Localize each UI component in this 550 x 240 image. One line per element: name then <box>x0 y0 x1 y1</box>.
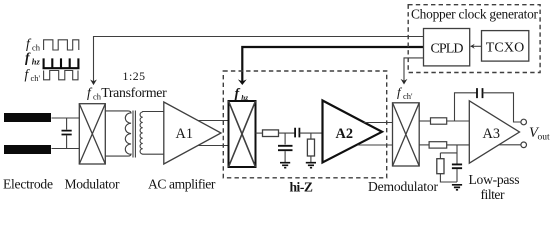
feedback wire up from top input <box>455 93 477 121</box>
arrowhead f_hz down (bold) <box>238 79 247 85</box>
svg-text:out: out <box>538 132 550 142</box>
resistor to ground (low-pass) <box>440 152 457 154</box>
capacitor across electrode wires <box>62 131 72 135</box>
label 1:25 <box>123 69 146 83</box>
label Demodulator <box>368 179 438 194</box>
chopper clock generator dashed box <box>408 5 540 73</box>
arrowhead f_ch down <box>90 80 97 86</box>
label f_ch Transformer <box>87 85 167 101</box>
wire chopper to R1 <box>256 132 263 134</box>
CPLD U-box <box>424 29 470 66</box>
svg-text:Chopper clock generator: Chopper clock generator <box>411 7 539 22</box>
TCXO box <box>482 31 529 61</box>
wire A1 to chopper (bottom tap) <box>198 145 228 147</box>
chopper crossed box (bold) <box>229 101 256 167</box>
svg-text:CPLD: CPLD <box>431 42 464 57</box>
electrode bottom bar <box>4 145 51 154</box>
wire f_hz clock line (thick) from CPLD to hi-Z arrow <box>238 47 424 85</box>
ground (hi-Z resistor) <box>306 163 316 168</box>
svg-text:A2: A2 <box>336 126 353 142</box>
waveform f_ch <box>44 40 79 50</box>
capacitor C series (hi-Z) <box>295 128 299 138</box>
svg-text:hi-Z: hi-Z <box>289 180 313 195</box>
signal label f_ch' <box>25 67 41 84</box>
transformer core <box>133 111 135 158</box>
wire demodulator to R bottom <box>419 144 429 146</box>
label f_hz at chopper <box>235 87 249 102</box>
wire modulator to transformer primary (bottom) <box>105 154 131 157</box>
signal label f_ch <box>26 36 41 53</box>
wire modulator to transformer primary (top) <box>105 111 131 114</box>
wire series cap to A2 <box>299 132 322 134</box>
signal label f_hz <box>25 50 41 67</box>
svg-text:1:25: 1:25 <box>123 69 146 83</box>
feedback wire right and down to output <box>483 93 521 122</box>
hi-Z dashed box <box>223 71 386 178</box>
label Electrode <box>3 177 53 192</box>
label hi-Z <box>289 180 313 195</box>
wire TCXO to CPLD with arrowhead <box>471 45 482 47</box>
capacitor to ground (hi-Z) <box>284 133 286 144</box>
svg-text:ch': ch' <box>31 73 41 83</box>
RC to ground junction (low-pass) <box>456 145 458 164</box>
waveform f_hz <box>43 58 80 68</box>
transformer primary coil <box>125 113 131 155</box>
svg-text:ch': ch' <box>403 91 413 101</box>
modulator crossed box <box>79 104 105 164</box>
output terminal circle upper <box>521 119 527 125</box>
op-amp A3 <box>469 101 519 163</box>
wire stub to lower output terminal <box>499 144 520 146</box>
wire electrode bottom to modulator <box>52 148 80 150</box>
svg-text:AC amplifier: AC amplifier <box>148 177 216 192</box>
wire electrode top to modulator <box>52 117 80 119</box>
electrode top bar <box>4 113 51 122</box>
svg-text:ch: ch <box>32 43 41 53</box>
wire R bottom to A3 <box>447 144 470 146</box>
label Low-pass filter <box>469 172 520 202</box>
wire f_ch clock line (thin) from CPLD to transformer arrow <box>94 37 424 82</box>
op-amp A2 (bold) <box>323 101 383 163</box>
label Modulator <box>65 177 120 192</box>
svg-text:Low-pass: Low-pass <box>469 172 520 187</box>
wire R top to A3 <box>447 120 470 122</box>
svg-text:Electrode: Electrode <box>3 177 53 192</box>
demodulator crossed box <box>393 103 420 166</box>
svg-text:Transformer: Transformer <box>101 85 167 100</box>
wire A2 to demodulator (bottom tap) <box>358 144 393 146</box>
wire demodulator to R top <box>419 120 430 122</box>
ground (low-pass) <box>452 185 462 190</box>
label chopper clock generator <box>411 7 539 22</box>
svg-text:A1: A1 <box>176 126 193 142</box>
wire A2 to demodulator (top tap) <box>364 122 393 124</box>
feedback capacitor <box>477 88 483 98</box>
svg-text:Demodulator: Demodulator <box>368 179 438 194</box>
resistor to ground (hi-Z) <box>310 133 312 139</box>
op-amp A1 <box>164 102 221 164</box>
svg-text:hz: hz <box>32 57 41 67</box>
waveform f_ch' <box>44 71 78 80</box>
label f_ch' at demodulator <box>397 85 413 102</box>
svg-text:A3: A3 <box>483 126 500 142</box>
wire f_ch' clock line from CPLD left edge down to demodulator <box>404 58 424 81</box>
wire R to series cap <box>279 132 295 134</box>
transformer secondary coil <box>140 112 143 154</box>
capacitor to ground (low-pass) <box>452 164 462 168</box>
resistor R top (low-pass) <box>431 118 447 124</box>
svg-text:Modulator: Modulator <box>65 177 120 192</box>
wire secondary to A1 (top) <box>143 111 164 114</box>
wire secondary to A1 (bottom) <box>143 153 164 155</box>
svg-text:filter: filter <box>481 187 505 202</box>
resistor R bottom (low-pass) <box>429 142 447 148</box>
output terminal circle lower <box>521 142 527 148</box>
label AC amplifier <box>148 177 216 192</box>
wire A1 to chopper (top tap) <box>198 120 228 122</box>
ground (hi-Z cap) <box>280 163 290 168</box>
label V_out <box>529 125 550 143</box>
resistor R (hi-Z series) <box>263 130 279 137</box>
arrowhead f_ch' down <box>401 79 408 85</box>
svg-text:TCXO: TCXO <box>486 41 525 56</box>
